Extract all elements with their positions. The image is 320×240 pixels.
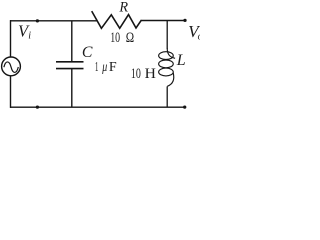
node dot Vi top (36, 19, 39, 22)
node dot output bottom (183, 105, 186, 108)
ac source Vi (sinusoidal source) (2, 57, 21, 76)
wire capacitor branch upper (71, 21, 73, 61)
wire bottom run (10, 106, 185, 108)
svg-text:H: H (145, 66, 156, 82)
node dot Vi bottom (36, 105, 39, 108)
wire top right run (resistor to output terminal) (141, 20, 185, 22)
svg-text:Ω: Ω (126, 30, 134, 46)
svg-text:R: R (118, 0, 128, 16)
svg-text:i: i (28, 31, 31, 42)
svg-text:C: C (82, 44, 93, 61)
svg-text:o: o (198, 31, 200, 42)
resistor R zigzag (92, 11, 142, 28)
capacitor C plates (56, 62, 84, 69)
svg-text:μ: μ (102, 60, 108, 75)
svg-text:10: 10 (131, 66, 141, 82)
wire inductor branch upper lead (166, 21, 168, 49)
wire left upper segment (10, 20, 12, 57)
svg-text:L: L (176, 52, 186, 69)
wire top run (corner to resistor) (10, 20, 97, 22)
inductor L coil (159, 48, 175, 86)
wire left lower segment (10, 76, 12, 108)
svg-text:F: F (109, 60, 117, 75)
node dot output top (183, 19, 186, 22)
wire inductor branch lower lead (166, 86, 168, 107)
svg-text:10: 10 (110, 30, 120, 46)
wire capacitor branch lower (71, 69, 73, 108)
svg-text:1: 1 (95, 60, 99, 75)
